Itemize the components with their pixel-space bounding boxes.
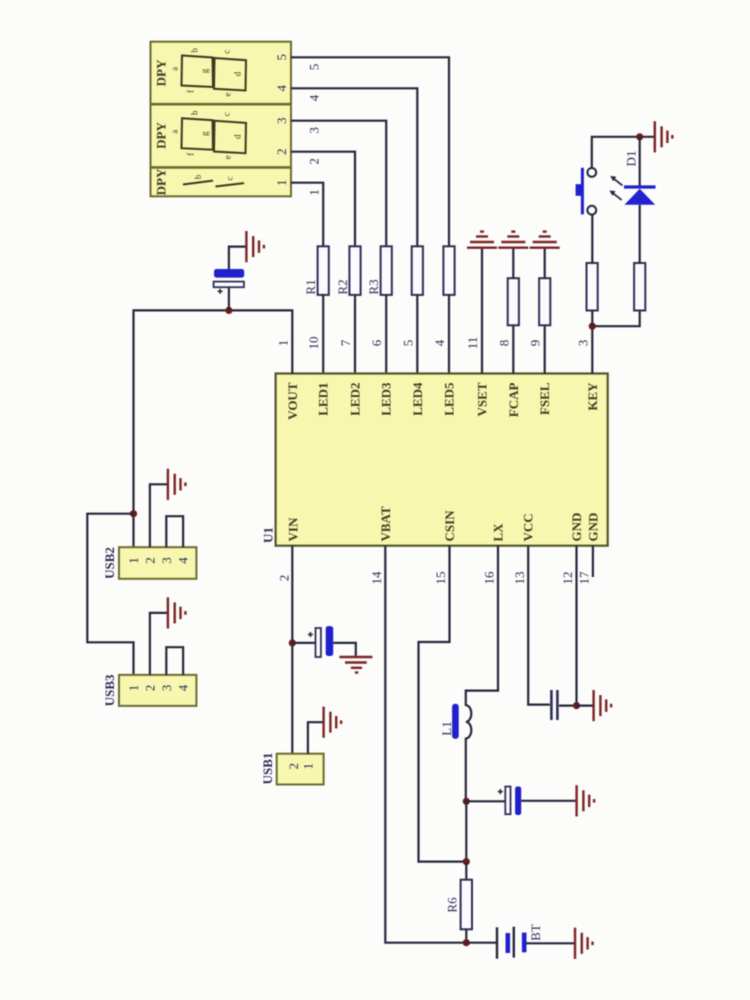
DPY pin numbers 5,4,3,2,1 inside box	[274, 54, 289, 186]
wire U1 pin 16 LX down with jog to inductor L1	[466, 546, 498, 706]
pushbutton upper contact	[587, 168, 596, 177]
wire U1 pin 3 KEY up to junction	[591, 326, 593, 373]
wire U1 pin 8 FCAP to resistor	[512, 325, 514, 373]
svg-text:14: 14	[369, 571, 384, 585]
svg-text:R2: R2	[335, 279, 350, 294]
connector USB2 body	[119, 547, 196, 579]
wire USB1 pin 1 to ground	[308, 722, 324, 754]
wire U1 pin 14 VBAT down to battery node	[385, 546, 466, 943]
DPY divider 1	[151, 103, 292, 106]
resistor at FCAP	[508, 278, 519, 325]
resistor at button	[587, 263, 598, 311]
svg-text:LED3: LED3	[379, 382, 394, 416]
U1 top pin numbers	[275, 337, 590, 350]
ground at USB2 (sideways)	[168, 469, 186, 500]
capacitor C3 plus sign	[498, 789, 503, 794]
wire DPY pin 2 to resistor column	[291, 152, 355, 247]
svg-text:BT: BT	[528, 924, 543, 941]
wire U1 pin 9 FSEL to resistor	[544, 325, 546, 373]
wire capacitor C3 to ground	[521, 800, 576, 802]
junction node GND	[573, 702, 580, 709]
wire junction to LED resistor bottom	[592, 311, 639, 327]
svg-text:a: a	[170, 130, 180, 134]
connector DPY block (3 stacked 7-seg displays)	[151, 42, 292, 197]
junction node USB2 pin 1	[130, 510, 137, 517]
capacitor C4 plate 1	[550, 690, 553, 720]
pushbutton actuator bar	[581, 168, 584, 215]
wire U1 pin 11 VSET to ground	[481, 248, 483, 374]
svg-text:6: 6	[369, 339, 384, 346]
inductor L1 winding arcs	[466, 705, 472, 738]
wire capacitor C1 to bus	[228, 287, 230, 310]
wire resistor column 4 to U1	[416, 295, 418, 374]
svg-text:GND: GND	[569, 513, 584, 542]
svg-text:R3: R3	[366, 279, 381, 294]
segment labels a-g of display 2	[170, 110, 243, 159]
svg-text:USB2: USB2	[102, 547, 117, 579]
wire U1 pin 12 GND down to ground	[575, 546, 577, 706]
svg-text:VIN: VIN	[286, 517, 301, 541]
svg-text:11: 11	[465, 337, 480, 350]
svg-text:VOUT: VOUT	[285, 382, 300, 420]
wire U1 pin 13 VCC down to capacitor C4	[528, 546, 550, 705]
junction node VIN at capacitor C2	[289, 639, 296, 646]
wire U1 pin 1 VOUT up and left bus to USB2 pin 1	[134, 310, 293, 547]
U1 top pin name labels	[285, 382, 600, 420]
svg-text:1: 1	[126, 557, 141, 564]
ground at VSET (inverted)	[467, 232, 497, 248]
svg-text:5: 5	[307, 64, 322, 71]
junction node CSIN sense	[463, 858, 470, 865]
svg-text:1: 1	[275, 340, 290, 347]
ground at battery (sideways)	[575, 928, 593, 959]
svg-text:4: 4	[176, 557, 191, 564]
svg-text:4: 4	[307, 94, 322, 101]
svg-text:f: f	[186, 90, 196, 93]
U1 bottom pin name labels	[286, 506, 601, 541]
svg-text:16: 16	[482, 571, 497, 585]
svg-text:b: b	[193, 174, 203, 179]
wire CSIN node to resistor R6	[465, 862, 467, 880]
svg-text:DPY: DPY	[154, 168, 169, 195]
svg-text:R1: R1	[303, 279, 318, 294]
ground at FCAP (inverted)	[498, 232, 528, 248]
LED D1 triangle	[624, 189, 655, 205]
capacitor C1 plus sign	[218, 289, 223, 294]
svg-text:f: f	[186, 153, 196, 156]
resistor column 3 body	[381, 246, 392, 295]
inductor L1 core bar	[452, 704, 459, 739]
ground at C2 (downward)	[339, 657, 372, 673]
resistor column 1 body	[318, 246, 329, 295]
svg-text:g: g	[200, 68, 210, 73]
svg-text:FSEL: FSEL	[537, 382, 552, 415]
wire battery BT to ground	[527, 942, 576, 944]
svg-text:3: 3	[159, 557, 174, 564]
wire LX node down to CSIN node	[465, 801, 467, 861]
wire resistor R6 to battery node	[465, 929, 467, 942]
svg-text:L1: L1	[439, 721, 454, 735]
capacitor C1 plus plate	[214, 282, 244, 288]
junction node KEY	[589, 323, 596, 330]
wire USB2 junction to USB3 pin 1 (left bus)	[87, 514, 133, 675]
wire U1 pin 15 CSIN down with jog to R6 node	[419, 546, 467, 862]
7-segment glyph of DPY display 2	[182, 118, 247, 153]
wire USB2 pin 2 to ground	[150, 484, 168, 547]
junction node battery negative	[463, 939, 470, 946]
svg-text:LED2: LED2	[348, 383, 363, 416]
wire capacitor C4 to GND node	[559, 704, 577, 706]
LED D1 cathode bar	[624, 185, 656, 188]
svg-text:7: 7	[338, 339, 353, 346]
svg-text:1: 1	[274, 179, 289, 186]
resistor column 5 body	[443, 246, 454, 295]
svg-text:9: 9	[528, 340, 543, 347]
capacitor C2 plus plate	[316, 628, 321, 657]
ground at USB1 (sideways)	[324, 707, 342, 738]
svg-text:USB1: USB1	[260, 753, 275, 785]
svg-text:b: b	[190, 110, 200, 115]
ground at USB3 (sideways)	[168, 597, 186, 628]
ground at GND pin 12 (sideways)	[594, 690, 612, 721]
wire button resistor bottom to junction	[591, 311, 593, 327]
wire battery node to battery BT	[466, 942, 497, 944]
svg-text:2: 2	[307, 158, 322, 165]
capacitor C4 plate 2	[556, 690, 559, 720]
wire U1 pin 2 VIN down to USB1	[291, 546, 293, 754]
svg-text:LED5: LED5	[442, 382, 457, 416]
svg-text:FCAP: FCAP	[506, 382, 521, 417]
wire VIN junction to capacitor C2	[292, 642, 315, 644]
svg-text:LED4: LED4	[410, 382, 425, 416]
svg-text:5: 5	[274, 54, 289, 61]
svg-text:3: 3	[159, 685, 174, 692]
svg-text:d: d	[233, 71, 243, 76]
svg-text:8: 8	[496, 340, 511, 347]
wire resistor column 1 to U1	[322, 295, 324, 374]
svg-text:R6: R6	[445, 897, 460, 913]
svg-text:a: a	[170, 67, 180, 71]
wire junction to capacitor C3	[466, 800, 505, 802]
svg-text:4: 4	[432, 339, 447, 346]
svg-text:1: 1	[126, 685, 141, 692]
svg-text:U1: U1	[261, 527, 276, 543]
wire USB2 pins 3-4 bridge	[166, 516, 183, 547]
pushbutton lower contact	[587, 206, 596, 215]
wire DPY pin 1 to resistor column	[291, 183, 323, 247]
wire inductor L1 to junction	[465, 738, 467, 802]
svg-text:2: 2	[277, 575, 292, 582]
svg-text:4: 4	[274, 85, 289, 92]
svg-text:d: d	[233, 134, 243, 139]
7-segment partial glyph of DPY display 3 (segments b,c)	[183, 181, 213, 185]
svg-text:2: 2	[286, 763, 301, 770]
connector USB3 body	[119, 675, 196, 706]
U1 bottom pin numbers	[277, 571, 592, 585]
ground top right	[655, 121, 673, 152]
capacitor C3 minus plate	[515, 787, 521, 816]
ground at C1 (sideways)	[246, 231, 264, 262]
svg-text:e: e	[223, 155, 233, 159]
wire FCAP resistor to ground	[512, 248, 514, 279]
svg-text:VCC: VCC	[521, 513, 536, 541]
DPY divider 2	[151, 166, 292, 169]
LED D1 emission arrow 2	[609, 191, 621, 200]
battery BT short plate 2	[522, 933, 527, 953]
svg-text:VSET: VSET	[475, 382, 490, 416]
wire GND node to ground symbol	[577, 704, 594, 706]
svg-text:2: 2	[142, 557, 157, 564]
junction node LX output	[463, 798, 470, 805]
svg-text:5: 5	[400, 340, 415, 347]
svg-text:12: 12	[560, 572, 575, 585]
resistor R6	[461, 880, 472, 930]
svg-text:3: 3	[575, 340, 590, 347]
7-segment glyph of DPY display 1	[182, 56, 247, 91]
wire DPY pin 5 to resistor column	[291, 57, 449, 246]
wire USB3 pin 2 to ground	[150, 613, 168, 675]
svg-text:3: 3	[274, 117, 289, 124]
svg-text:DPY: DPY	[154, 122, 169, 149]
svg-text:10: 10	[306, 337, 321, 350]
svg-text:2: 2	[142, 685, 157, 692]
wire DPY pin 3 to resistor column	[291, 121, 386, 247]
junction node on VOUT bus at capacitor	[225, 307, 232, 314]
resistor at LED D1	[634, 263, 645, 311]
IC U1 body	[276, 374, 608, 546]
resistor at FSEL	[539, 278, 550, 325]
segment labels a-g of display 1	[170, 47, 243, 96]
ground at C3 (sideways)	[577, 785, 595, 816]
svg-text:DPY: DPY	[154, 59, 169, 86]
wire resistor column 3 to U1	[385, 295, 387, 374]
svg-text:c: c	[225, 177, 235, 181]
svg-text:13: 13	[512, 572, 527, 585]
svg-text:KEY: KEY	[585, 382, 600, 411]
svg-text:VBAT: VBAT	[378, 506, 393, 541]
wire switch top to top node	[592, 137, 655, 169]
svg-text:GND: GND	[585, 513, 600, 542]
wire resistor column 5 to U1	[448, 295, 450, 374]
connector USB1 body	[277, 754, 324, 785]
svg-text:USB3: USB3	[102, 674, 117, 706]
svg-text:g: g	[200, 131, 210, 136]
resistor column 4 body	[412, 246, 423, 295]
USB3 pin numbers	[126, 684, 191, 691]
svg-text:D1: D1	[624, 151, 639, 167]
svg-text:CSIN: CSIN	[442, 510, 457, 542]
wire FSEL resistor to ground	[544, 248, 546, 279]
USB2 pin numbers	[126, 557, 191, 564]
wire resistor column 2 to U1	[354, 295, 356, 374]
battery BT long plate 2	[513, 927, 515, 958]
capacitor C2 plus sign	[308, 632, 313, 637]
capacitor C2 minus plate	[326, 626, 334, 656]
wire U1 pin 17 GND stub	[592, 546, 594, 577]
wire LED top node down to LED	[639, 137, 641, 186]
ground at FSEL (inverted)	[530, 232, 560, 248]
capacitor C3 plus plate	[505, 787, 510, 815]
wire USB3 pins 3-4 bridge	[166, 647, 183, 675]
svg-text:4: 4	[176, 684, 191, 691]
battery BT short plate 1	[505, 933, 510, 953]
svg-text:1: 1	[307, 189, 322, 196]
svg-text:b: b	[190, 47, 200, 52]
resistor column 2 body	[349, 246, 360, 295]
pushbutton cap	[576, 184, 583, 196]
svg-text:17: 17	[577, 571, 592, 585]
svg-text:c: c	[222, 112, 232, 116]
wire LED bottom to resistor	[639, 205, 641, 263]
capacitor C1 minus plate	[214, 269, 244, 278]
svg-text:c: c	[222, 50, 232, 54]
svg-text:LX: LX	[491, 523, 506, 542]
svg-text:3: 3	[307, 127, 322, 134]
LED D1 emission arrow 1	[610, 176, 622, 185]
svg-text:2: 2	[274, 148, 289, 155]
svg-text:LED1: LED1	[316, 383, 331, 416]
svg-text:e: e	[223, 93, 233, 97]
wire capacitor C2 to ground	[333, 643, 356, 656]
battery BT long plate 1	[496, 927, 498, 958]
wire capacitor C1 to ground	[229, 247, 247, 269]
wire button resistor top to switch	[591, 214, 593, 263]
wire DPY pin 4 to resistor column	[291, 88, 417, 246]
junction node at LED top	[636, 133, 643, 140]
svg-text:1: 1	[301, 763, 316, 770]
svg-text:15: 15	[433, 572, 448, 585]
